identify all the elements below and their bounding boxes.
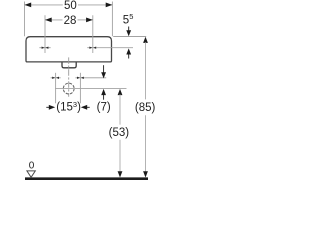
dimension 50 line bbox=[25, 4, 63, 6]
tap hole cross right bbox=[89, 47, 92, 49]
wire: extension line right tap (28 dim) bbox=[92, 15, 94, 53]
wire: rim top extension line bbox=[113, 36, 146, 38]
svg-text:(53): (53) bbox=[109, 127, 130, 139]
datum triangle bbox=[27, 171, 35, 177]
dimension (15^3) bbox=[46, 106, 49, 108]
svg-text:28: 28 bbox=[64, 15, 77, 27]
svg-text:5: 5 bbox=[123, 15, 129, 27]
fixing bolt cross left bbox=[51, 77, 61, 79]
svg-text:(153): (153) bbox=[56, 100, 81, 114]
dimension 28 line bbox=[45, 19, 63, 21]
wire: tap hole horizontal centerline bbox=[87, 47, 133, 49]
wire: extension line right (50 dim) bbox=[111, 2, 113, 37]
fixing bolt cross right bbox=[75, 77, 106, 79]
dimension (7) bbox=[103, 65, 105, 72]
wire: drain vertical centerline bbox=[68, 57, 70, 96]
drain outlet tab bbox=[62, 62, 76, 68]
dimension (85) bbox=[143, 37, 148, 43]
wire: extension line left tap (28 dim) bbox=[44, 15, 46, 53]
dimension (53) bbox=[118, 89, 123, 95]
wire: siphon horizontal centerline bbox=[55, 88, 127, 90]
svg-text:5: 5 bbox=[129, 12, 133, 21]
dimension 5^5 bbox=[128, 27, 130, 32]
tap hole cross left bbox=[39, 47, 50, 49]
wire: extension line left (50 dim) bbox=[24, 2, 26, 37]
floor line bbox=[25, 177, 148, 180]
svg-text:0: 0 bbox=[29, 160, 35, 171]
svg-text:50: 50 bbox=[64, 0, 77, 12]
svg-text:(7): (7) bbox=[97, 101, 111, 113]
siphon dashed circle bbox=[63, 83, 74, 94]
basin outline bbox=[26, 37, 112, 62]
svg-text:(85): (85) bbox=[135, 102, 156, 114]
